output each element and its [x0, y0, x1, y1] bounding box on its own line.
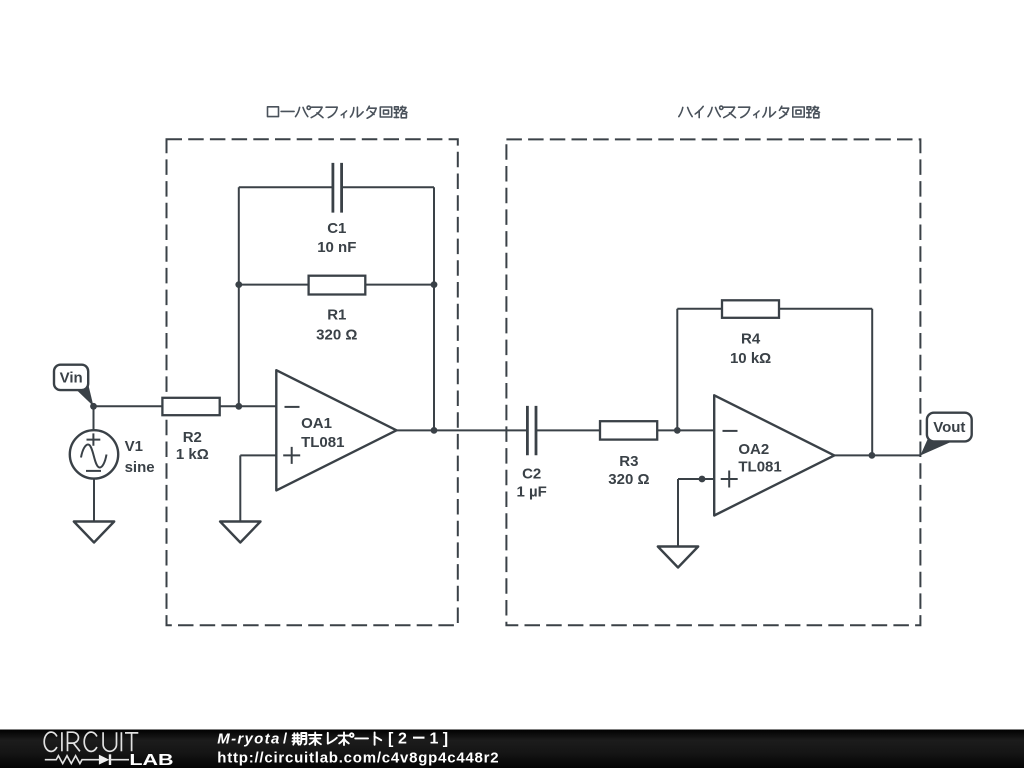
svg-text:TL081: TL081	[301, 434, 344, 451]
svg-text:10 kΩ: 10 kΩ	[730, 350, 771, 367]
svg-text:R4: R4	[741, 331, 761, 348]
svg-text:OA1: OA1	[301, 415, 332, 432]
svg-text:R3: R3	[619, 453, 638, 470]
svg-text:Vout: Vout	[933, 419, 965, 436]
svg-text:2: 2	[398, 730, 407, 747]
svg-text:320 Ω: 320 Ω	[316, 326, 357, 343]
svg-text:http://circuitlab.com/c4v8gp4c: http://circuitlab.com/c4v8gp4c448r2	[217, 750, 498, 767]
svg-text:1: 1	[430, 730, 439, 747]
svg-text:R1: R1	[327, 307, 346, 324]
svg-text:[: [	[388, 730, 394, 747]
svg-text:V1: V1	[125, 438, 143, 455]
svg-text:1 kΩ: 1 kΩ	[176, 446, 209, 463]
svg-text:sine: sine	[125, 459, 155, 476]
svg-text:10 nF: 10 nF	[317, 239, 356, 256]
svg-text:LAB: LAB	[129, 752, 173, 768]
svg-text:OA2: OA2	[738, 441, 769, 458]
svg-text:C2: C2	[522, 465, 541, 482]
svg-text:]: ]	[443, 730, 448, 747]
svg-text:M-ryota: M-ryota	[217, 730, 279, 747]
svg-text:R2: R2	[183, 429, 202, 446]
svg-text:1 µF: 1 µF	[517, 483, 547, 500]
svg-text:TL081: TL081	[738, 458, 781, 475]
svg-text:320 Ω: 320 Ω	[608, 471, 649, 488]
svg-text:C1: C1	[327, 220, 346, 237]
svg-text:Vin: Vin	[60, 370, 83, 387]
